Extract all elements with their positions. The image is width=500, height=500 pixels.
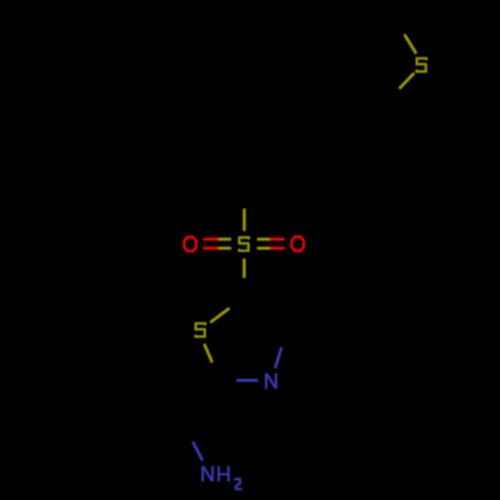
atom S (thioether S, top) <box>417 58 427 71</box>
atom N (ring N3) <box>266 373 276 389</box>
bond C2-N3 (ring, horizontal into N), N-colored half <box>236 379 258 382</box>
bond S(=O)2-C5 (vertical below sulfonyl S), S-colored half <box>243 259 246 279</box>
bond CH2-NH2 (into amine N), N-colored half <box>193 442 203 461</box>
S=O double bond right, lower line: olive half then red half <box>257 247 270 250</box>
bond C5-S1 (ring, up-right from ring S), S-colored half <box>210 308 229 322</box>
atom S (sulfonyl S) <box>239 238 249 251</box>
bond N3-C4 (ring, up-right from N), N-colored half <box>275 347 281 368</box>
bond S1-C2 (ring, down-right from ring S), S-colored half <box>204 344 212 363</box>
S=O double bond right, upper line: olive half then red half <box>257 238 270 241</box>
amine NH2 label: subscript 2 glyph <box>235 479 242 489</box>
amine NH2 label: N glyph <box>203 466 213 482</box>
amine NH2 label: H glyph <box>219 466 229 482</box>
S=O double bond left, upper line: red half then olive half <box>203 238 218 241</box>
bond S-CH2 (thioether S down-left), S-colored half <box>399 73 414 89</box>
atom S (ring S1) <box>196 323 206 336</box>
atom O (sulfonyl, left) octagon <box>184 237 196 251</box>
bond CH3-S (methyl to thioether S), S-colored half <box>404 34 416 53</box>
S=O double bond left, lower line: red half then olive half <box>203 247 218 250</box>
atom O (sulfonyl, right) octagon <box>292 237 304 251</box>
bond CH3-S(=O)2 (vertical above sulfonyl S), S-colored half <box>243 209 246 231</box>
